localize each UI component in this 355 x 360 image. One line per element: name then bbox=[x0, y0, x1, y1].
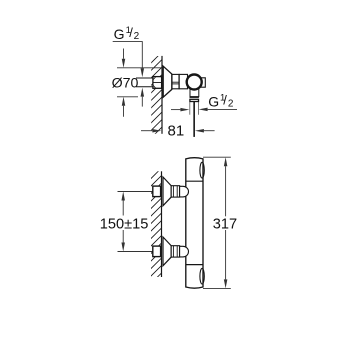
svg-text:2: 2 bbox=[228, 99, 234, 110]
svg-text:150±15: 150±15 bbox=[100, 216, 149, 232]
svg-text:317: 317 bbox=[213, 216, 237, 232]
svg-text:G: G bbox=[114, 26, 125, 42]
svg-text:81: 81 bbox=[168, 123, 185, 140]
svg-text:/: / bbox=[223, 92, 227, 107]
svg-text:2: 2 bbox=[134, 31, 140, 42]
svg-text:G: G bbox=[208, 94, 219, 110]
svg-text:Ø70: Ø70 bbox=[112, 76, 139, 92]
